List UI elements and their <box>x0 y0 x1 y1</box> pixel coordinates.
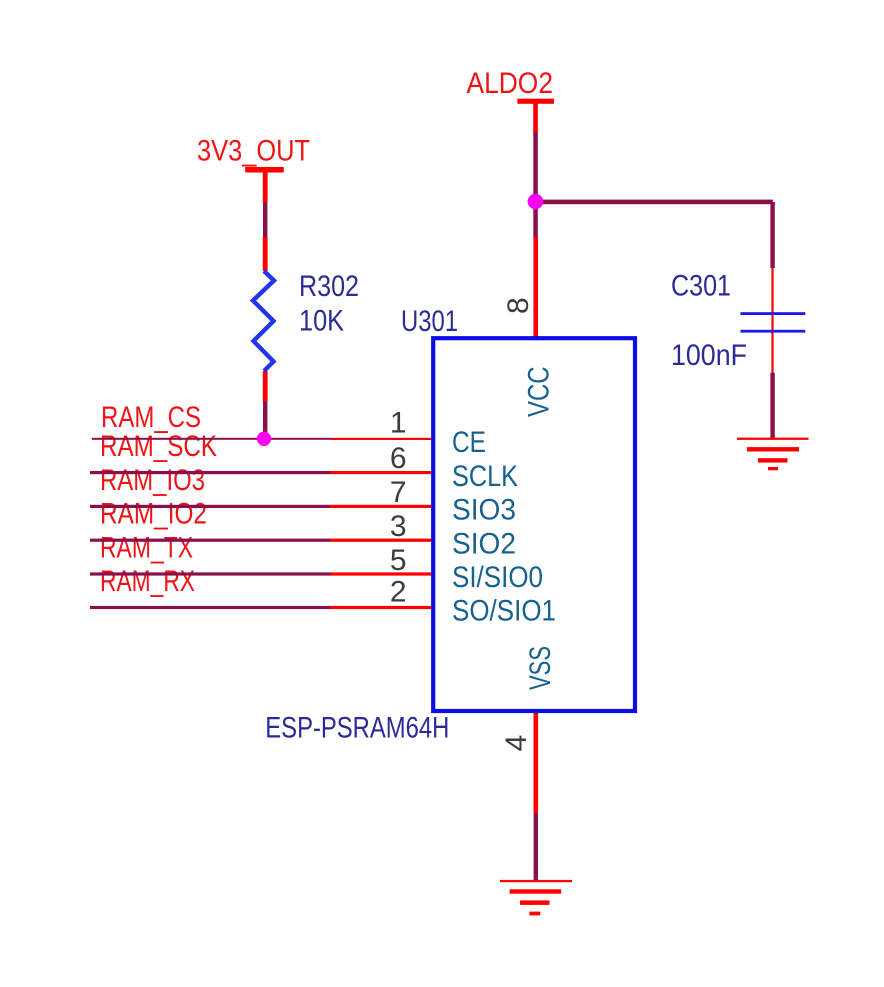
svg-text:10K: 10K <box>299 305 344 338</box>
svg-text:6: 6 <box>390 442 407 475</box>
svg-text:VSS: VSS <box>524 646 557 690</box>
svg-text:1: 1 <box>390 407 407 440</box>
svg-text:SCLK: SCLK <box>452 460 518 493</box>
svg-text:5: 5 <box>390 544 407 577</box>
svg-text:VCC: VCC <box>523 366 556 417</box>
svg-text:SI/SIO0: SI/SIO0 <box>452 561 543 594</box>
svg-text:3V3_OUT: 3V3_OUT <box>197 134 310 167</box>
svg-text:SIO3: SIO3 <box>452 494 516 527</box>
svg-text:RAM_RX: RAM_RX <box>100 565 195 598</box>
svg-text:U301: U301 <box>401 305 458 338</box>
svg-text:SIO2: SIO2 <box>452 527 516 560</box>
svg-text:8: 8 <box>502 297 535 314</box>
svg-text:RAM_IO3: RAM_IO3 <box>100 464 205 497</box>
svg-text:RAM_TX: RAM_TX <box>100 531 193 564</box>
svg-text:RAM_SCK: RAM_SCK <box>100 430 217 463</box>
svg-text:ESP-PSRAM64H: ESP-PSRAM64H <box>265 712 449 745</box>
svg-text:C301: C301 <box>671 270 731 303</box>
svg-text:CE: CE <box>452 426 486 459</box>
svg-text:7: 7 <box>390 476 407 509</box>
svg-text:4: 4 <box>500 735 533 752</box>
svg-text:2: 2 <box>390 576 407 609</box>
svg-text:R302: R302 <box>299 270 359 303</box>
svg-text:RAM_IO2: RAM_IO2 <box>100 498 207 531</box>
svg-text:ALDO2: ALDO2 <box>467 67 554 100</box>
svg-text:100nF: 100nF <box>671 339 747 372</box>
svg-text:3: 3 <box>390 510 407 543</box>
svg-text:SO/SIO1: SO/SIO1 <box>452 595 556 628</box>
